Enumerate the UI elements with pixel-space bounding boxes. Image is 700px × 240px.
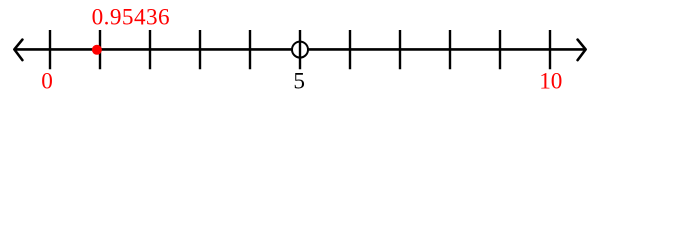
svg-text:10: 10 xyxy=(539,69,562,95)
red point at 0.95436 xyxy=(92,45,102,55)
left arrowhead xyxy=(14,40,22,61)
number line diagram xyxy=(0,0,700,100)
tick marks 0..10 xyxy=(50,30,550,69)
svg-text:0.95436: 0.95436 xyxy=(92,5,171,31)
right arrowhead xyxy=(578,40,586,61)
svg-text:0: 0 xyxy=(41,69,53,95)
svg-text:5: 5 xyxy=(293,69,305,95)
open circle at 5 xyxy=(292,42,308,58)
wire: main number line shaft xyxy=(15,48,586,51)
